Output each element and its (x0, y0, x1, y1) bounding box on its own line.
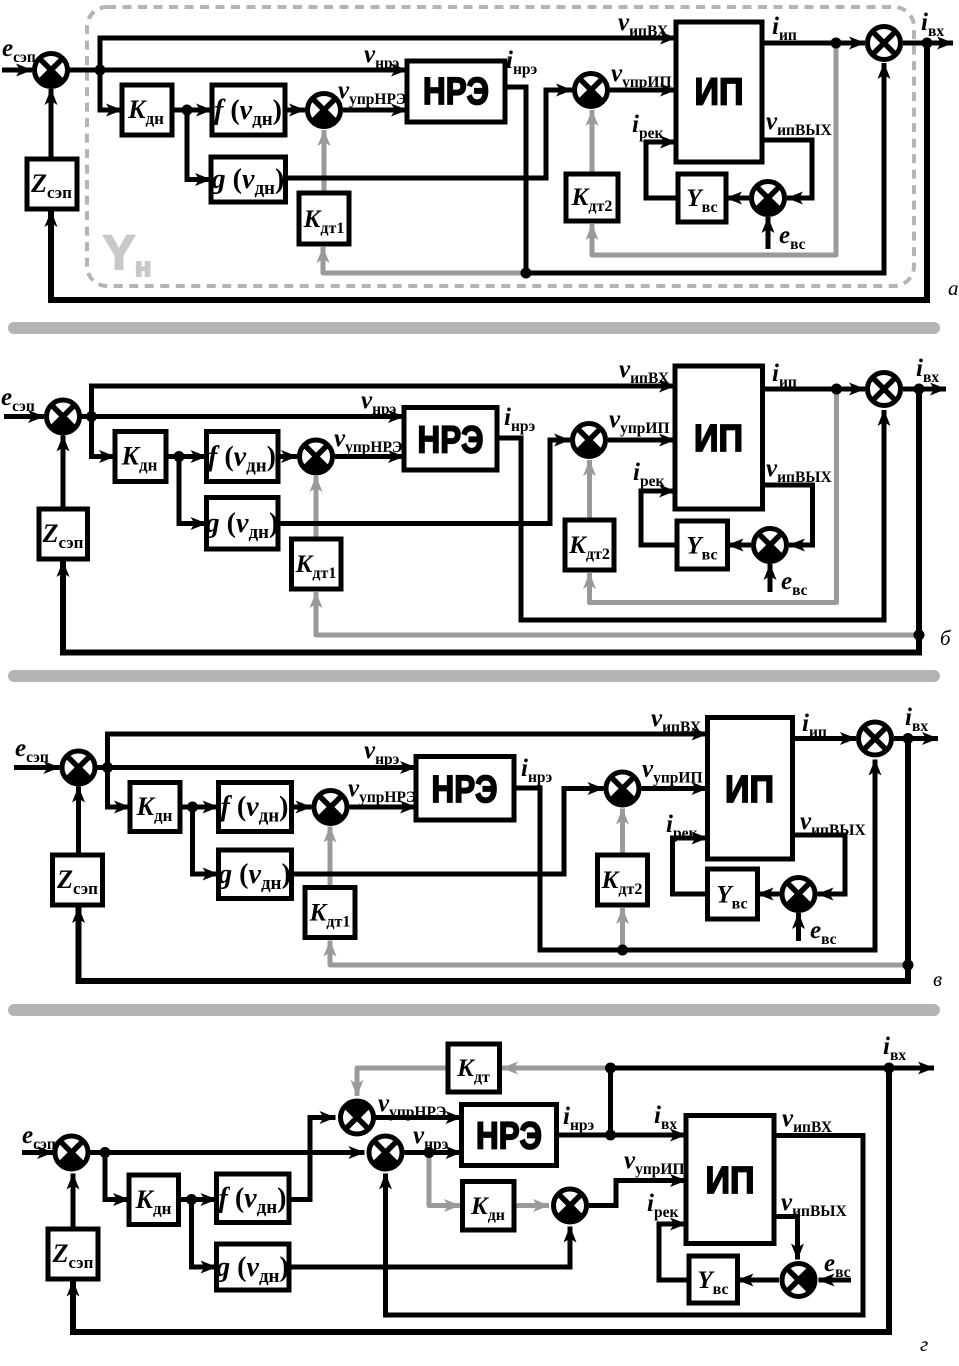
wire f to summer S2 (285, 108, 305, 113)
node main line (100, 1147, 111, 1158)
wire K_dt2 to summer S3 (gray) (590, 110, 595, 174)
block f(v_dn) (212, 85, 285, 135)
wire e_vs input to S5 (796, 913, 801, 941)
wire K_dn to f(v_dn) (172, 108, 212, 113)
wire IP v_ipVYH down to summer S5 (762, 140, 812, 198)
node i_nre tap (617, 945, 628, 956)
wire K_dn to f(v_dn) (180, 805, 219, 810)
wire S_upr to NRE (v_uprNRE) (376, 1115, 462, 1120)
summer S5 (e_vs) (782, 878, 815, 911)
node i_vh tap (922, 38, 933, 49)
block Z_sep (53, 855, 103, 905)
block Y_vs (708, 869, 758, 919)
block K_dn (130, 783, 180, 832)
wire v_nre tap to K_dn2 (gray) (429, 1153, 460, 1206)
summer S1 (e_sep) (62, 751, 95, 784)
block f(v_dn) (207, 432, 279, 482)
block K_dt1 (299, 193, 349, 244)
summer S3 (v_uprIP) (575, 74, 608, 107)
wire i_vh feedback to Z_sep (63, 389, 919, 653)
wire K_dn to f(v_dn) (179, 1197, 217, 1202)
node after K_dn (186, 1194, 197, 1205)
node i_nre tap (521, 268, 532, 279)
summer S4 (output i_vh) (868, 27, 901, 60)
summer S_upr (v_uprNRE) (341, 1101, 374, 1134)
wire S_ip to IP (v_uprIP) (589, 1181, 686, 1206)
svg-text:б: б (940, 626, 952, 650)
wire NRE output to IP (i_vh) (557, 1133, 687, 1138)
wire node to IP top (v_ipVH) (92, 386, 676, 417)
summer S2 (v_uprNRE) (308, 94, 341, 127)
svg-text:ИП: ИП (725, 769, 774, 811)
svg-text:в: в (933, 967, 942, 991)
wire e_sep input to summer S1 (22, 1150, 53, 1155)
block NRE (407, 61, 505, 122)
svg-text:г: г (920, 1332, 928, 1356)
wire S2 to NRE (v_uprNRE) (350, 805, 417, 810)
wire IP v_ipVH feedback to S_vnre (386, 1136, 864, 1316)
wire S_vnre to NRE (v_nre) (405, 1150, 462, 1155)
wire i_vh feedback to Z_sep (79, 739, 909, 982)
wire S4 to output i_vh (894, 736, 938, 741)
wire e_sep input to summer S1 (2, 68, 32, 73)
block NRE (462, 1105, 557, 1166)
block NRE (404, 408, 497, 471)
block Y_vs (677, 521, 728, 569)
wire IP output i_ip to summer S4 (763, 387, 866, 392)
node i_ip tap (831, 384, 842, 395)
summer S2 (v_uprNRE) (300, 440, 333, 473)
block K_dt (448, 1044, 500, 1092)
wire IP v_ipVYH down to summer S5 (774, 1217, 798, 1260)
wire Y_vs to IP (i_rek) (659, 1224, 689, 1280)
wire i_vh feedback to Z_sep (51, 43, 927, 300)
wire S5 to Y_vs (728, 543, 752, 548)
block K_dt2 (566, 174, 618, 221)
svg-text:НРЭ: НРЭ (423, 71, 489, 113)
svg-text:f (vдн): f (vдн) (208, 442, 276, 477)
block Y_vs (678, 174, 726, 222)
wire i_vh feedback to Z_sep (73, 1068, 889, 1332)
wire e_sep input to summer S1 (14, 765, 60, 770)
summer S2 (v_uprNRE) (314, 791, 347, 824)
wire e_vs input to S5 (768, 564, 773, 592)
separator bar 2 (8, 670, 940, 682)
block IP (675, 366, 763, 509)
wire g output up to summer S3 (278, 440, 570, 524)
wire IP v_ipVYH down to summer S5 (793, 835, 846, 894)
wire IP output i_ip to summer S4 (793, 736, 857, 741)
wire vertical i_vh link (608, 1068, 613, 1135)
svg-text:ИП: ИП (706, 1160, 755, 1202)
wire e_vs input to S5 (766, 217, 771, 249)
wire node2 down to g(v_dn) (192, 1200, 217, 1268)
node i_vh tap (903, 733, 914, 744)
wire S1 to summer S_vnre (v_nre line) (90, 1150, 365, 1155)
summer S3 (v_uprIP) (573, 424, 606, 457)
wire NRE output i_nre down and to summer S4 (514, 760, 875, 951)
summer S_ip (v_uprIP) (554, 1189, 587, 1222)
node i_vh tap (914, 384, 925, 395)
wire Z_sep to summer S1 (61, 436, 66, 510)
wire f output up to summer S_upr (289, 1118, 336, 1200)
node i_vh tap for K_dt1 (903, 960, 914, 971)
summer S4 (output i_vh) (868, 373, 901, 406)
wire Y_vs to IP (i_rek) (641, 491, 677, 545)
wire node to K_dn (100, 70, 122, 110)
block K_dt2 (598, 855, 648, 905)
summer S5 (e_vs) (782, 1264, 815, 1297)
summer S5 (e_vs) (752, 182, 785, 215)
node after K_dn (182, 105, 193, 116)
separator bar 1 (8, 322, 940, 334)
wire i_vh tap to K_dt1 (gray) (316, 592, 919, 635)
wire S3 to IP (v_uprIP) (642, 786, 708, 791)
wire node to IP top (v_ipVH) (108, 734, 708, 768)
wire node2 down to g(v_dn) (179, 457, 207, 524)
wire i_ip tap to K_dt2 (gray) (590, 389, 837, 603)
wire e_vs input to S5 (819, 1278, 852, 1283)
svg-text:НРЭ: НРЭ (432, 769, 498, 811)
block f(v_dn) (217, 1174, 290, 1223)
wire node2 down to g(v_dn) (187, 110, 211, 180)
block g(v_dn) (217, 1244, 290, 1290)
block K_dt2 (565, 520, 614, 570)
svg-text:ИП: ИП (694, 418, 743, 460)
wire IP v_ipVYH down to summer S5 (763, 485, 813, 545)
block Y_vs (689, 1256, 738, 1303)
wire i_ip tap to K_dt2 (gray) (592, 43, 836, 255)
wire K_dt2 to summer S3 (gray) (620, 809, 625, 856)
wire Z_sep to summer S1 (76, 787, 81, 856)
block K_dt1 (292, 539, 342, 589)
wire S2 to NRE (v_uprNRE) (343, 108, 407, 113)
wire Y_vs to IP (i_rek) (646, 142, 678, 198)
block g(v_dn) (207, 498, 279, 550)
wire K_dt1 to summer S2 (gray) (322, 130, 327, 193)
wire node to K_dn (92, 417, 116, 457)
wire K_dn2 to summer S_ip (gray) (514, 1203, 549, 1208)
summer S3 (v_uprIP) (606, 772, 639, 805)
summer S1 (e_sep) (55, 1136, 88, 1169)
node main line (86, 411, 97, 422)
wire Z_sep to summer S1 (71, 1174, 76, 1229)
wire S3 to IP (v_uprIP) (608, 438, 675, 443)
wire f to summer S2 (278, 454, 297, 459)
load admittance boundary Y_n (dashed) (87, 7, 914, 286)
svg-text:f (vдн): f (vдн) (219, 1183, 287, 1218)
block K_dn (115, 432, 166, 482)
node i_vh tap for K_dt1 (914, 630, 925, 641)
wire g output up to summer S3 (286, 90, 573, 178)
summer S4 (output i_vh) (859, 722, 892, 755)
wire S1 to NRE (v_nre) (80, 414, 405, 419)
wire S1 to NRE (v_nre) (95, 765, 416, 770)
wire K_dt2 to summer S3 (gray) (587, 460, 592, 520)
wire S1 to NRE (v_nre) (68, 68, 408, 73)
block K_dn (122, 85, 172, 135)
wire g output up to summer S3 (292, 789, 604, 875)
wire S5 to Y_vs (738, 1278, 780, 1283)
svg-text:ИП: ИП (695, 72, 744, 114)
block IP (708, 718, 793, 860)
wire S5 to Y_vs (758, 892, 780, 897)
wire i_nre tap to K_dt1 (gray) (323, 247, 526, 273)
svg-text:f (vдн): f (vдн) (214, 95, 282, 130)
wire K_dt to summer S_upr (gray) (357, 1068, 448, 1096)
wire S3 to IP (v_uprIP) (610, 88, 676, 93)
wire K_dt1 to summer S2 (gray) (328, 827, 333, 888)
wire NRE output i_nre down and to summer S4 (505, 63, 884, 273)
node i_vh tap top (605, 1063, 616, 1074)
block IP (686, 1116, 774, 1244)
wire e_sep input to summer S1 (4, 414, 44, 419)
wire K_dn to f(v_dn) (166, 454, 207, 459)
node i_nre line junction (605, 1130, 616, 1141)
node after K_dn (187, 802, 198, 813)
wire i_vh tap to K_dt (gray) (502, 1066, 611, 1071)
wire Z_sep to summer S1 (49, 89, 54, 159)
wire IP output i_ip to summer S4 (762, 41, 865, 46)
summer S_vnre (v_nre) (369, 1136, 402, 1169)
node v_nre tap (424, 1147, 435, 1158)
wire node2 down to g(v_dn) (193, 807, 219, 874)
summer S1 (e_sep) (47, 400, 80, 433)
summer S5 (e_vs) (754, 529, 787, 562)
wire S5 to Y_vs (726, 196, 749, 201)
block NRE (416, 757, 514, 821)
wire S2 to NRE (v_uprNRE) (335, 454, 404, 459)
block Z_sep (48, 1229, 98, 1279)
node main line (102, 762, 113, 773)
node i_vh right tap (884, 1063, 895, 1074)
separator bar 3 (8, 1004, 940, 1016)
wire S4 to output i_vh (903, 387, 946, 392)
wire i_vh top line to output (611, 1066, 935, 1071)
wire i_nre tap to K_dt2 (gray) (620, 908, 625, 950)
wire node to K_dn (108, 768, 131, 808)
block Z_sep (39, 509, 88, 559)
block Z_sep (27, 159, 77, 209)
block K_dn2 (463, 1182, 515, 1231)
wire Y_vs to IP (i_rek) (673, 838, 708, 894)
block g(v_dn) (211, 157, 286, 202)
wire node to K_dn (105, 1153, 129, 1200)
svg-text:НРЭ: НРЭ (418, 420, 484, 462)
block IP (676, 22, 762, 162)
svg-text:f (vдн): f (vдн) (221, 792, 289, 827)
block f(v_dn) (219, 783, 292, 832)
node after K_dn (174, 451, 185, 462)
block K_dn (129, 1175, 179, 1225)
block g(v_dn) (219, 850, 292, 899)
block K_dt1 (305, 888, 355, 938)
wire S4 to output i_vh (903, 41, 953, 46)
wire f to summer S2 (292, 805, 312, 810)
wire i_vh tap to K_dt1 (gray) (330, 941, 908, 966)
node i_ip tap (831, 38, 842, 49)
node main line (95, 65, 106, 76)
summer S1 (e_sep) (35, 54, 68, 87)
wire K_dt1 to summer S2 (gray) (314, 476, 319, 539)
wire g output up to summer S_ip (289, 1227, 570, 1268)
svg-text:НРЭ: НРЭ (476, 1116, 542, 1158)
svg-text:а: а (948, 276, 959, 300)
wire NRE output i_nre down and to summer S4 (497, 410, 884, 620)
wire node to IP top (v_ipVH) (100, 38, 676, 70)
